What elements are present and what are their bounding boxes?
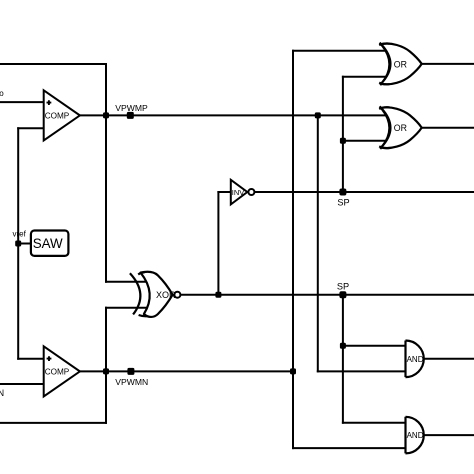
wire (217, 192, 219, 295)
wire (293, 447, 406, 449)
junction (215, 292, 221, 298)
svg-text:SP: SP (337, 281, 349, 291)
junction (103, 112, 109, 118)
junction (340, 343, 346, 349)
wire (80, 114, 387, 116)
svg-text:o: o (0, 89, 4, 98)
wire (106, 307, 147, 309)
wire (106, 281, 146, 283)
wire (343, 422, 406, 424)
svg-text:SP: SP (337, 197, 349, 207)
comparator COMP1 (44, 90, 80, 140)
sawtooth generator SAW (31, 231, 69, 256)
wire (424, 434, 474, 436)
wire (293, 50, 386, 52)
comparator COMP2 (44, 346, 80, 396)
svg-text:SAW: SAW (33, 236, 63, 251)
junction (315, 112, 321, 118)
junction (340, 138, 346, 144)
node VPWMP (115, 103, 148, 119)
svg-text:OR: OR (394, 59, 407, 69)
wire (181, 294, 474, 296)
junction (103, 368, 109, 374)
and gate AND1 (406, 341, 424, 378)
wire (343, 345, 406, 347)
wire (317, 115, 319, 371)
svg-text:AND: AND (407, 431, 424, 440)
node VPWMN (115, 368, 148, 387)
xor gate XOR (130, 272, 181, 317)
wire (0, 422, 106, 424)
junction (290, 368, 296, 374)
wire (255, 191, 474, 193)
wire (105, 308, 107, 423)
inverter INV (231, 180, 255, 205)
wire (422, 63, 474, 65)
svg-text:OR: OR (394, 123, 407, 133)
svg-text:INV: INV (232, 188, 245, 197)
svg-text:vref: vref (13, 230, 27, 239)
svg-text:N: N (0, 388, 4, 398)
svg-text:VPWMP: VPWMP (115, 103, 148, 113)
or gate OR2 (379, 106, 422, 148)
wire (424, 358, 474, 360)
svg-text:COMP: COMP (45, 112, 70, 121)
wire (18, 127, 44, 129)
wire (0, 383, 44, 385)
svg-text:XOR: XOR (156, 290, 176, 300)
wire (343, 140, 387, 142)
svg-text:COMP: COMP (45, 368, 70, 377)
wire (80, 370, 293, 372)
wire (342, 77, 344, 192)
svg-text:VPWMN: VPWMN (115, 377, 148, 387)
svg-text:AND: AND (407, 355, 424, 364)
wire (0, 63, 106, 65)
wire (18, 243, 31, 245)
wire (292, 51, 294, 448)
wire (105, 64, 107, 282)
wire (342, 295, 344, 423)
node vref (13, 230, 27, 247)
wire (422, 127, 474, 129)
node SP (337, 189, 349, 208)
wire (218, 191, 230, 193)
wire (0, 101, 44, 103)
or gate OR1 (379, 43, 422, 86)
wire (318, 370, 406, 372)
wire (343, 76, 386, 78)
and gate AND2 (406, 417, 424, 454)
node SP (337, 281, 349, 298)
wire (17, 128, 19, 359)
wire (18, 358, 44, 360)
